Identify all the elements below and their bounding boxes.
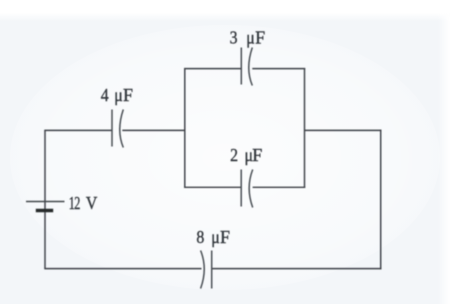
- svg-text:2: 2: [230, 145, 238, 165]
- svg-text:3: 3: [230, 27, 238, 47]
- svg-text:μ: μ: [114, 85, 122, 105]
- svg-text:F: F: [255, 27, 265, 47]
- svg-text:F: F: [252, 145, 262, 165]
- svg-text:F: F: [123, 85, 133, 105]
- svg-text:F: F: [220, 227, 230, 247]
- svg-text:8: 8: [196, 227, 204, 247]
- svg-text:μ: μ: [246, 27, 254, 47]
- svg-text:μ: μ: [211, 227, 219, 247]
- svg-text:V: V: [86, 193, 98, 213]
- svg-text:12: 12: [69, 194, 80, 214]
- svg-text:4: 4: [101, 85, 109, 105]
